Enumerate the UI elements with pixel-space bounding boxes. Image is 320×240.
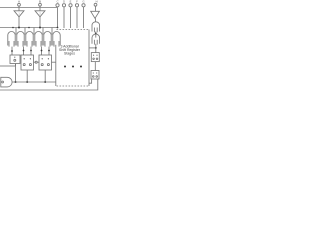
component box L (feedback) xyxy=(10,55,20,64)
node xyxy=(12,27,14,29)
node xyxy=(41,50,43,52)
output terminal H xyxy=(94,0,98,11)
wire: stage 1 gate stems xyxy=(23,47,25,55)
node: driver 1 junction xyxy=(18,27,20,29)
wire xyxy=(95,44,97,53)
coupling node between stages xyxy=(34,61,40,63)
wire: gate lead xyxy=(15,28,17,35)
terminal B xyxy=(39,0,42,8)
input terminal D xyxy=(62,0,65,28)
text label: 3 Additional Shift Register Stages xyxy=(59,44,81,55)
node xyxy=(57,27,59,29)
transistor Q4 (dome) xyxy=(35,31,42,46)
dashed box right edge xyxy=(88,30,90,87)
component box K1 (right) xyxy=(91,53,99,62)
transistor Q6 (dome) xyxy=(53,31,60,46)
clock driver U2 (triangle) xyxy=(35,8,45,17)
svg-text:C: C xyxy=(57,0,59,3)
clock driver U1 (triangle) xyxy=(14,8,24,17)
wire: bottom rail xyxy=(0,79,98,90)
terminal A xyxy=(18,0,21,8)
wire: stage 2 gate stems xyxy=(41,47,43,55)
component box S2 (stage 2) xyxy=(39,55,52,70)
wire: dome1 stem xyxy=(11,47,13,55)
wire: left input feed xyxy=(0,65,16,67)
component box S1 (stage 1) xyxy=(21,55,34,70)
component box K2 (right) xyxy=(91,71,99,80)
wire: stage 2 to dashed box tie xyxy=(52,61,56,63)
node xyxy=(11,50,13,52)
input terminal C xyxy=(56,0,59,7)
transistor Q5 (dome) xyxy=(44,31,51,46)
output buffer U3 (triangle) xyxy=(91,11,100,18)
svg-text:D: D xyxy=(63,0,65,3)
node xyxy=(26,81,28,83)
wire: dashed box left edge xyxy=(55,45,57,86)
gate G1 inner mark xyxy=(2,81,4,83)
wire: gate output xyxy=(12,81,56,83)
svg-text:A: A xyxy=(18,0,20,4)
gate G1 (AND) xyxy=(1,77,12,87)
wire: bus corner down xyxy=(57,8,59,28)
svg-text:H: H xyxy=(96,0,98,4)
transistor Q1 (dome) xyxy=(8,32,15,47)
transistor Q13 (dome, right top) xyxy=(92,22,100,32)
ellipsis dots (omitted stages) xyxy=(64,65,82,67)
wire: box L output xyxy=(15,64,17,67)
wire xyxy=(39,17,41,28)
wire: gate lead xyxy=(42,28,44,35)
transistor Q3 (dome) xyxy=(26,31,33,46)
transistor Q14 (dome, right bottom) xyxy=(92,34,100,44)
wire xyxy=(89,47,96,49)
svg-text:E: E xyxy=(70,0,72,3)
dashed box: 3 additional shift register stages xyxy=(57,30,90,87)
wire xyxy=(18,17,20,28)
wire: right box to dashed box xyxy=(89,79,92,83)
node xyxy=(28,27,30,29)
wire: box S1 output lead xyxy=(26,70,28,82)
wire: gate lead xyxy=(24,28,26,35)
input terminal G xyxy=(82,0,85,28)
svg-text:G: G xyxy=(82,0,84,3)
transistor Q2 (dome) xyxy=(17,31,24,46)
wire: gate lead xyxy=(33,28,35,35)
wire: clock bus phi xyxy=(0,27,58,29)
node xyxy=(23,50,25,52)
input terminal F xyxy=(75,0,78,28)
wire xyxy=(95,18,97,22)
input terminal E xyxy=(69,0,72,28)
node: driver 2 junction xyxy=(39,27,41,29)
wire: box S2 output lead xyxy=(44,70,46,82)
node xyxy=(48,50,50,52)
svg-text:B: B xyxy=(39,0,41,4)
wire / node xyxy=(95,32,97,38)
wire: top clock bus xyxy=(0,7,58,9)
svg-text:Stages: Stages xyxy=(64,51,75,55)
node xyxy=(30,50,32,52)
node xyxy=(15,81,17,83)
wire xyxy=(94,62,96,71)
wire: gate lead xyxy=(51,28,53,35)
node xyxy=(44,81,46,83)
